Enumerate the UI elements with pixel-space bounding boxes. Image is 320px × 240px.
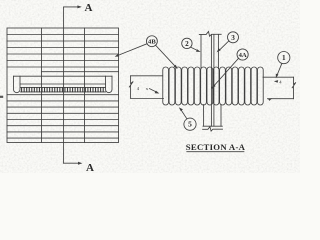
weld arrow left [150,89,160,94]
leader 4B to plan view [115,44,148,57]
bottom section flag arrow A [64,162,94,174]
left panel break line [129,76,133,99]
svg-text:3: 3 [231,34,235,42]
plank butt joint line right [84,28,86,143]
vertical shear plate upper break line [199,32,221,37]
weld size note 4x right [274,80,278,83]
plank edge lines lower [7,95,119,138]
svg-text:A: A [86,162,94,173]
title SECTION A-A [186,142,246,152]
balloon 5 [184,118,196,130]
right slotted tab [106,76,113,92]
svg-text:1: 1 [282,54,286,62]
svg-text:4B: 4B [148,38,156,45]
top section flag arrow A [64,2,93,14]
plate lower break line [203,127,223,131]
leader 2 [191,47,201,52]
right panel break line [292,77,296,99]
plank edge lines upper [7,35,119,68]
splice plate pair (through joint) [211,34,214,126]
balloon 3 [228,32,239,43]
right adjacent panel stub [263,77,294,99]
balloon 4A [237,49,248,60]
plank edge line extra [42,71,119,73]
leader 4B to joint [156,45,178,69]
leader 3 [217,41,229,53]
plate bottom edge [203,125,222,127]
splice band top line [14,75,113,77]
shear plate outer edges above joint [201,34,218,68]
balloon 1 [278,52,290,64]
svg-text:4A: 4A [239,52,247,59]
svg-text:SECTION A-A: SECTION A-A [186,142,246,152]
svg-text:2: 2 [185,40,189,48]
plan view panel outline [7,28,119,143]
leader 1 [276,63,282,78]
splice band mid line [20,83,106,85]
left adjacent panel stub [131,76,164,99]
section cut line A-A (vertical) [63,7,65,163]
scan speck left margin [0,96,3,98]
svg-text:5: 5 [188,120,192,129]
balloon 4B [146,36,157,47]
left slotted tab [14,76,21,92]
corrugated loop bars of joint [163,67,263,105]
weld arrow right [268,98,272,101]
balloon 2 [182,38,192,48]
leader 5 [179,107,187,119]
leader 4A [211,58,238,88]
weld hatch strip rails [21,87,106,92]
weld hatch ticks [22,88,104,92]
svg-text:A: A [85,2,93,14]
plank butt joint line left [41,28,43,143]
shear plate outer edges below joint [204,105,221,127]
